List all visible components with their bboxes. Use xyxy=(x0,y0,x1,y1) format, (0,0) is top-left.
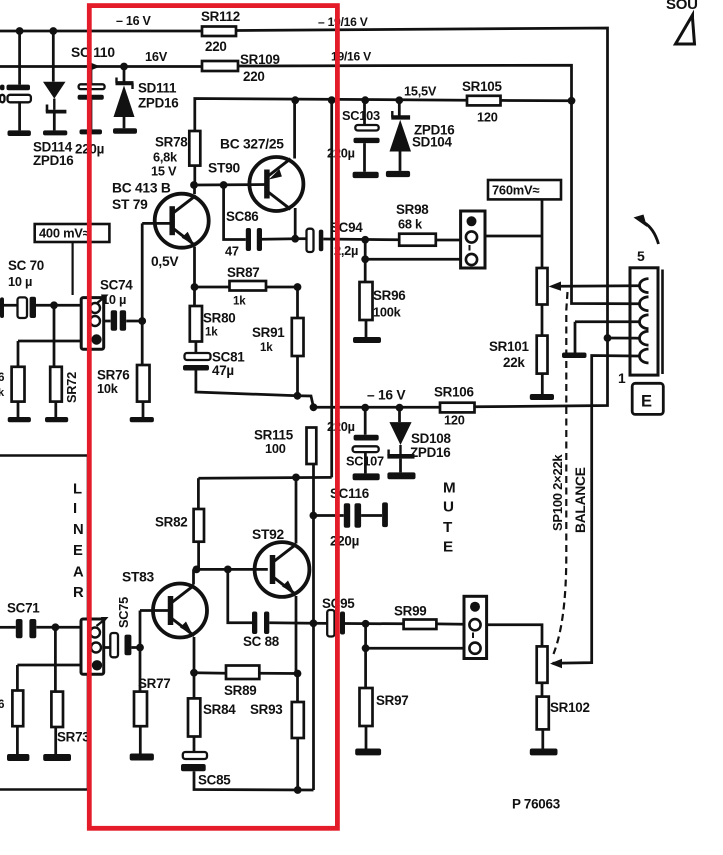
svg-text:P 76063: P 76063 xyxy=(512,797,560,812)
wire SR72 bottom xyxy=(54,402,57,417)
wire ST92 emitter vertical xyxy=(295,596,298,674)
wire to switch lower contact xyxy=(365,258,460,261)
node SD114 top xyxy=(49,27,57,35)
ground SR73 xyxy=(43,754,71,761)
capacitor SC74 plate A xyxy=(111,310,117,331)
capacitor SC107 outline plate xyxy=(353,446,379,452)
svg-text:SR105: SR105 xyxy=(462,79,502,94)
node SC107 top xyxy=(361,404,369,412)
capacitor SC88 plate A xyxy=(252,612,257,635)
transistor ST92 xyxy=(255,542,310,597)
ground Rleft2 xyxy=(8,417,31,422)
callout box 400mV xyxy=(35,224,110,242)
capacitor SC95 solid plate xyxy=(340,612,345,635)
wire to SC116 xyxy=(313,514,343,517)
wire long vertical rail xyxy=(330,100,333,477)
svg-text:SR72: SR72 xyxy=(64,372,79,403)
svg-text:SOU: SOU xyxy=(666,0,698,13)
wire ST79 collector stub xyxy=(193,185,196,194)
ground bar SC103 xyxy=(353,172,379,178)
svg-text:120: 120 xyxy=(477,110,498,125)
wiper arrow SR101 xyxy=(549,282,562,291)
resistor left (input 2) xyxy=(12,691,23,727)
wire SD108 bottom xyxy=(399,459,402,473)
node ST90 emitter rail xyxy=(291,96,299,104)
node SR87/SR91 xyxy=(294,283,302,291)
wire SR102 bottom xyxy=(541,729,544,748)
wire 15.5V rail right xyxy=(501,99,572,102)
wire SR72 vertical xyxy=(53,305,56,367)
node SC103 top xyxy=(361,96,369,104)
svg-text:SR77: SR77 xyxy=(138,676,171,691)
svg-text:N: N xyxy=(73,522,83,538)
svg-text:10 µ: 10 µ xyxy=(8,274,32,289)
svg-text:SC74: SC74 xyxy=(100,278,133,293)
wire ST79 base xyxy=(142,222,173,225)
resistor SR96 xyxy=(360,282,373,320)
svg-text:400 mV≈: 400 mV≈ xyxy=(39,226,90,241)
capacitor SC103 solid plate xyxy=(354,138,380,143)
svg-text:L: L xyxy=(73,482,82,498)
node SR73 top xyxy=(52,623,60,631)
svg-text:22k: 22k xyxy=(503,355,525,370)
diode SD111 (zener) xyxy=(116,81,134,85)
ground SR76 xyxy=(130,417,154,422)
wire SR93 bottom xyxy=(296,738,299,790)
wire bottom loop xyxy=(194,771,314,790)
wire to SC95 xyxy=(313,622,327,625)
svg-text:47µ: 47µ xyxy=(212,363,234,378)
node SC74 / ST79 base xyxy=(138,317,146,325)
capacitor SC95 outline plate xyxy=(327,610,334,637)
wire SR96 bottom xyxy=(365,320,368,337)
wire 220u cap lower stub xyxy=(90,100,93,130)
resistor SR109 xyxy=(202,61,238,71)
node SR115 top / -16V rail xyxy=(310,403,318,411)
node SD108 top xyxy=(396,404,404,412)
terminal bar 220u cap xyxy=(80,129,103,134)
resistor SR102 xyxy=(537,697,549,730)
wire SC88 left branch xyxy=(228,569,252,622)
resistor left (input) xyxy=(12,367,25,402)
svg-text:120: 120 xyxy=(444,413,465,428)
svg-text:10k: 10k xyxy=(97,381,119,396)
node SR91 bottom xyxy=(294,392,302,400)
capacitor 220u outline plate xyxy=(79,84,105,89)
wire SD108 stub xyxy=(398,408,401,423)
wire -16V lower rail xyxy=(314,406,441,409)
wire pot to SR102 xyxy=(541,683,544,697)
node SD104 top xyxy=(395,96,403,104)
svg-text:SC86: SC86 xyxy=(226,209,259,224)
svg-text:ST 79: ST 79 xyxy=(112,197,148,212)
diode SD104 (zener) xyxy=(391,115,410,119)
svg-text:1: 1 xyxy=(618,371,626,386)
potentiometer SR101 upper xyxy=(537,268,548,305)
wire SC81 bottom rail xyxy=(196,371,298,396)
node SR96 top xyxy=(361,236,369,244)
wire SR101 bottom xyxy=(541,374,544,395)
capacitor 220u solid plate xyxy=(78,95,104,100)
node long rail top xyxy=(328,96,336,104)
svg-text:760mV≈: 760mV≈ xyxy=(492,183,539,198)
capacitor SC75 outline plate xyxy=(110,633,118,657)
svg-text:SR97: SR97 xyxy=(376,693,409,708)
capacitor SC71 plate B xyxy=(29,619,36,638)
node ST79 collector xyxy=(190,181,198,189)
wire contact 5 to balance pot wiper xyxy=(553,356,641,664)
terminal bar SD111 xyxy=(113,128,137,134)
svg-text:SC71: SC71 xyxy=(7,601,40,616)
wire SR76 bottom xyxy=(142,402,145,417)
svg-text:SR96: SR96 xyxy=(373,288,406,303)
wire Rleft3 bottom xyxy=(16,726,19,754)
resistor SR77 xyxy=(134,692,147,727)
svg-text:SC 70: SC 70 xyxy=(8,258,44,273)
wire input to SC70 xyxy=(0,304,18,307)
box E xyxy=(632,383,663,414)
wire wiper to connector contact 1 xyxy=(559,284,640,287)
wire SR80 to SC81 xyxy=(195,342,198,354)
potentiometer SR100b xyxy=(537,646,548,682)
capacitor SC107 solid plate xyxy=(354,435,379,441)
svg-text:SR102: SR102 xyxy=(550,700,590,715)
wire pot to SR101 xyxy=(541,305,544,336)
svg-text:A: A xyxy=(73,565,84,581)
ground SR77 xyxy=(130,754,154,761)
node contact 4 on -19/16V vertical xyxy=(604,334,612,342)
capacitor SC70 outline plate xyxy=(18,297,28,318)
ground bar SD104 xyxy=(386,171,410,177)
diode SD114 (zener) xyxy=(43,82,66,99)
node SR97 top xyxy=(362,620,370,628)
wire SD114 upper stub xyxy=(52,31,55,82)
wire -16V rail left xyxy=(0,30,202,33)
node SC116 branch xyxy=(310,512,318,520)
wire SR115 bottom long vertical xyxy=(312,464,315,790)
ground SR96 xyxy=(353,337,381,343)
wire SC74 to base line xyxy=(126,320,142,323)
svg-text:SC94: SC94 xyxy=(330,220,363,235)
node lower switch wire 2 xyxy=(362,644,370,652)
capacitor SC74 plate B xyxy=(120,310,126,331)
svg-text:SC103: SC103 xyxy=(342,108,380,123)
wire SR99 to switch xyxy=(436,623,464,626)
wire cap-left lower stub xyxy=(18,102,21,130)
input jack block 2 xyxy=(81,619,104,674)
node cap left top xyxy=(16,27,24,35)
dashed gang line SR100 balance xyxy=(554,292,568,654)
svg-text:ST90: ST90 xyxy=(208,161,241,176)
svg-text:SR89: SR89 xyxy=(224,683,257,698)
capacitor SC85 outline plate xyxy=(183,752,207,759)
diode SD108 (zener) xyxy=(389,422,411,445)
wire SC94 to SR98 xyxy=(323,238,399,242)
svg-text:SR98: SR98 xyxy=(396,202,429,217)
svg-text:E: E xyxy=(73,543,83,559)
capacitor SC116 plate B xyxy=(355,503,362,528)
wire switch middle contact to pot xyxy=(485,235,542,238)
resistor SR97 xyxy=(360,688,373,726)
connector block (rotary switch) xyxy=(630,268,658,375)
module border LINEAR xyxy=(0,456,88,790)
svg-text:SR80: SR80 xyxy=(203,311,236,326)
wire ST83 base vertical / SR77 top xyxy=(139,611,142,692)
svg-text:SC85: SC85 xyxy=(198,773,231,788)
wire SR73 bottom xyxy=(54,727,57,754)
ground bar contact 3 xyxy=(562,353,587,359)
capacitor SC116 plate A xyxy=(344,503,350,528)
ground SR101 xyxy=(530,394,554,400)
svg-text:6,8k: 6,8k xyxy=(153,150,178,165)
svg-text:SR101: SR101 xyxy=(489,339,529,354)
node ST92 collector xyxy=(292,474,300,482)
wire base node to ST90 xyxy=(194,183,269,186)
svg-text:SD108: SD108 xyxy=(411,431,451,446)
svg-text:1k: 1k xyxy=(233,295,246,308)
svg-text:SR109: SR109 xyxy=(240,52,280,67)
node SR93 bottom xyxy=(294,786,302,794)
svg-text:1k: 1k xyxy=(205,326,218,339)
wire 16V rail + vertical to contact 2 xyxy=(238,65,640,304)
resistor SR98 xyxy=(399,234,436,246)
svg-text:220: 220 xyxy=(205,39,227,54)
ground SR97 xyxy=(355,749,381,756)
wire ST90 emitter to rail xyxy=(293,100,296,158)
terminal bar SD114 xyxy=(43,130,67,135)
svg-text:SR112: SR112 xyxy=(201,9,240,24)
wire cap-left upper stub xyxy=(18,31,21,85)
cut component marks at left edge xyxy=(0,85,5,91)
svg-text:SC 110: SC 110 xyxy=(71,45,115,60)
node ST79 emitter / SR87 xyxy=(191,283,199,291)
resistor SR73 xyxy=(51,692,63,727)
svg-text:100k: 100k xyxy=(373,305,402,320)
wire to ST92 base xyxy=(197,568,268,571)
wire 15.5V rail left + SR78 top stub xyxy=(195,99,467,132)
ground SR72 xyxy=(45,417,68,422)
resistor SR89 xyxy=(226,666,259,680)
wire input to SC71 xyxy=(0,626,16,629)
svg-text:E: E xyxy=(641,393,652,411)
svg-text:SC 88: SC 88 xyxy=(243,634,280,649)
wire block2 lower contact xyxy=(17,664,81,667)
transistor ST90 (BC327/25) xyxy=(249,157,303,211)
wire jog to -16V node xyxy=(297,396,313,408)
svg-text:220µ: 220µ xyxy=(327,419,355,434)
wire ST83 base xyxy=(140,609,171,612)
wire SC103 lower stub xyxy=(363,143,366,172)
wire block1 lower contact xyxy=(18,340,81,343)
wire SC103 upper stub xyxy=(363,100,366,125)
svg-text:220: 220 xyxy=(243,69,265,84)
wire -16V rail right + right-side vertical xyxy=(236,28,608,407)
svg-text:100: 100 xyxy=(265,441,286,456)
svg-text:I: I xyxy=(73,501,77,517)
resistor SR93 xyxy=(292,702,304,738)
svg-text:SC75: SC75 xyxy=(116,597,131,628)
node SR72 top xyxy=(50,301,58,309)
switch arm arrow xyxy=(644,223,659,245)
ground SD108 xyxy=(387,472,415,479)
capacitor C-left outline plate xyxy=(8,95,31,103)
wire ST83 collector stub xyxy=(192,569,195,584)
svg-text:10 µ: 10 µ xyxy=(102,292,126,307)
wiper arrow SR100b xyxy=(550,659,562,668)
node SC86 branch xyxy=(220,181,228,189)
terminal bar cap-left xyxy=(8,130,31,136)
wire SR98 to switch xyxy=(436,239,461,242)
wire SC86 right xyxy=(262,237,295,240)
svg-text:BC 413 B: BC 413 B xyxy=(112,181,171,196)
svg-text:BALANCE: BALANCE xyxy=(573,467,588,533)
svg-text:47: 47 xyxy=(225,244,239,259)
svg-text:68 k: 68 k xyxy=(398,217,423,232)
transistor ST83 xyxy=(153,584,207,638)
svg-text:SD104: SD104 xyxy=(412,135,452,150)
node vertical / SC95 xyxy=(310,619,318,627)
wire contact 3 down to ground xyxy=(574,322,577,353)
resistor SR112 xyxy=(202,27,236,37)
resistor SR87 xyxy=(230,281,267,291)
svg-text:5: 5 xyxy=(637,248,645,264)
svg-text:– 16 V: – 16 V xyxy=(367,388,406,403)
junction arrow on 16V wire xyxy=(89,62,101,71)
node SC88 branch xyxy=(224,566,232,574)
svg-text:R: R xyxy=(73,585,84,601)
wire 220u cap upper stub xyxy=(90,68,93,85)
svg-text:15 V: 15 V xyxy=(151,164,177,179)
wire contact 4 xyxy=(608,337,641,340)
wire SR89 right xyxy=(259,672,297,675)
wire SR97 bottom xyxy=(365,726,368,749)
wire SC70 to block1 xyxy=(36,304,81,307)
wire SC107 bottom xyxy=(364,452,367,473)
capacitor SC103 outline plate xyxy=(355,125,378,131)
resistor SR72 xyxy=(50,367,62,402)
svg-text:0,5V: 0,5V xyxy=(151,254,179,269)
callout box 760mV xyxy=(488,180,561,199)
triangle symbol top right xyxy=(676,15,695,44)
node ST92 emitter / SR93 xyxy=(294,670,302,678)
node 16V vertical x 15.5V wire xyxy=(568,97,576,105)
svg-text:220µ: 220µ xyxy=(330,534,359,549)
resistor SR101 lower xyxy=(537,336,548,374)
node ST83 emitter / SR89 / SR84 xyxy=(190,669,198,677)
resistor SR80 xyxy=(190,306,202,342)
wire SR84 top xyxy=(193,673,196,699)
wire 760mV box to SR101 pot xyxy=(541,199,544,268)
svg-text:SR91: SR91 xyxy=(252,325,285,340)
capacitor C-left solid plate xyxy=(7,85,31,91)
svg-text:ZPD16: ZPD16 xyxy=(33,153,73,168)
wire SR93 top xyxy=(296,674,299,703)
wire SC116 right xyxy=(361,514,382,517)
wire block2 to SC75 xyxy=(104,646,111,649)
svg-text:ZPD16: ZPD16 xyxy=(138,96,178,111)
svg-text:SD111: SD111 xyxy=(138,81,177,96)
ground Rleft3 xyxy=(7,754,29,761)
wire contact 3 xyxy=(575,320,640,323)
wire to switch2 lower contact xyxy=(366,647,464,650)
capacitor SC71 plate A xyxy=(16,619,23,638)
red highlight rectangle xyxy=(89,6,337,829)
wire switch2 to balance pot xyxy=(487,625,542,647)
wire to SR89 xyxy=(194,671,226,674)
resistor SR84 xyxy=(188,698,200,736)
wire SR82 bottom xyxy=(197,542,200,570)
wire SC71 to block2 xyxy=(36,626,81,629)
wire SR87 left xyxy=(195,286,230,289)
svg-text:SR82: SR82 xyxy=(155,515,188,530)
wire Rleft3 top xyxy=(16,665,19,692)
wire ST79 base vertical to SR76 xyxy=(141,223,144,365)
svg-text:SR73: SR73 xyxy=(57,730,90,745)
svg-text:SR84: SR84 xyxy=(203,702,236,717)
svg-text:16V: 16V xyxy=(145,49,168,64)
wire SR91 bottom xyxy=(296,356,299,396)
svg-text:BC 327/25: BC 327/25 xyxy=(220,137,284,152)
node SC75 / SR77 xyxy=(136,644,144,652)
wire block1 to SC74 xyxy=(104,320,111,323)
svg-text:SP100 2×22k: SP100 2×22k xyxy=(550,454,565,531)
capacitor SC75 solid plate xyxy=(125,635,132,656)
wire Rleft2 bottom xyxy=(17,402,20,417)
svg-text:ZPD16: ZPD16 xyxy=(410,445,450,460)
wire SR82 top xyxy=(197,478,200,509)
node lower switch wire xyxy=(361,255,369,263)
capacitor SC81 solid plate xyxy=(183,365,209,371)
wire SD114 lower stub xyxy=(53,114,56,131)
node ST90 collector / SC94 xyxy=(291,235,299,243)
capacitor SC70 solid plate xyxy=(30,297,36,318)
svg-text:SR87: SR87 xyxy=(227,265,260,280)
wire ST92 collector vertical xyxy=(295,477,298,543)
wire SR87 right xyxy=(266,286,298,289)
wire SD111 upper stub xyxy=(123,67,126,82)
capacitor SC86 plate B xyxy=(257,228,262,251)
transistor ST79 (BC413B) xyxy=(155,194,209,248)
svg-text:U: U xyxy=(443,499,454,516)
ground SR102 xyxy=(530,749,558,756)
wire SR78 bottom xyxy=(193,166,196,185)
capacitor SC88 plate B xyxy=(264,612,269,635)
capacitor SC85 solid plate xyxy=(181,764,206,771)
resistor SR76 xyxy=(137,365,150,402)
wire Rleft2 top xyxy=(17,341,20,367)
wire SD104 lower stub xyxy=(399,152,402,171)
switch contact block S1 xyxy=(461,211,485,268)
svg-text:ST83: ST83 xyxy=(122,570,155,585)
wire SC107 stub xyxy=(364,408,367,435)
resistor SR78 xyxy=(189,131,200,166)
svg-text:1k: 1k xyxy=(260,341,273,354)
wire SD104 upper stub xyxy=(398,100,401,115)
svg-text:– 19/16 V: – 19/16 V xyxy=(318,15,368,29)
svg-text:– 16 V: – 16 V xyxy=(116,14,152,28)
node SD111 top xyxy=(120,63,128,71)
wire 16V rail left xyxy=(0,65,202,68)
capacitor SC116 end plate xyxy=(382,502,388,527)
svg-text:SR93: SR93 xyxy=(250,702,283,717)
wire SR91 top xyxy=(296,287,299,318)
wire SC75 to ST83 base line xyxy=(131,646,140,649)
wire SC86 left branch xyxy=(224,185,246,240)
svg-text:SR106: SR106 xyxy=(434,385,474,400)
svg-text:15,5V: 15,5V xyxy=(404,84,437,99)
resistor SR105 xyxy=(467,96,501,106)
wire SR73 vertical xyxy=(54,627,57,691)
